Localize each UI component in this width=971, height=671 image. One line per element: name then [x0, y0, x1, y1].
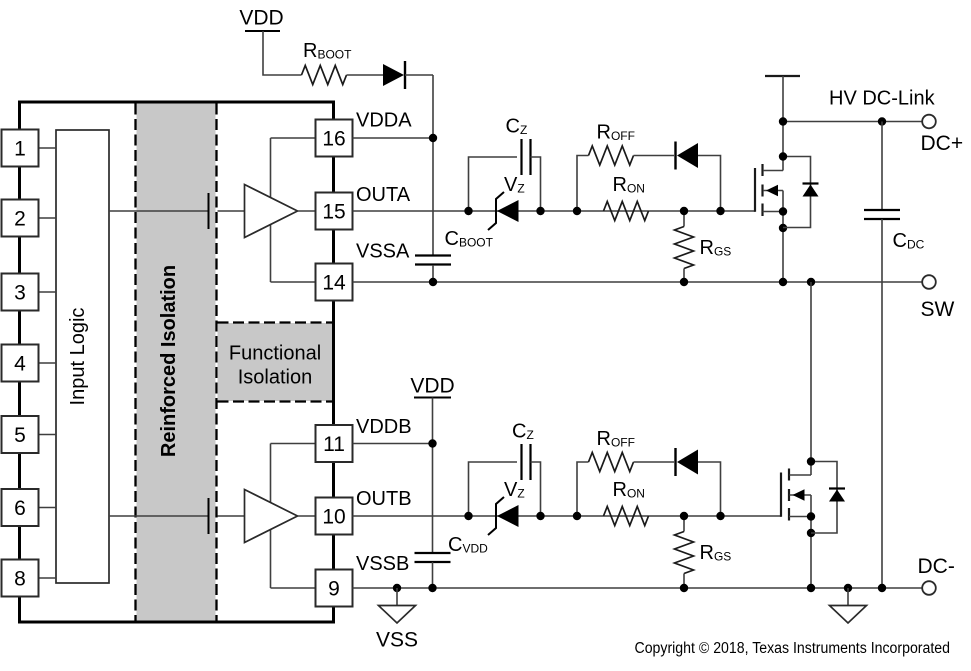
C_DC lower lead — [881, 219, 883, 588]
wire driver B to pin9 — [271, 587, 316, 589]
wire R_OFF to diode — [634, 155, 675, 157]
node HV C_DC — [878, 117, 886, 125]
node Q2 source DC- — [807, 584, 815, 592]
transistor Q1 channel segments — [761, 164, 763, 176]
svg-text:14: 14 — [322, 272, 346, 295]
pin box 14 — [316, 264, 353, 301]
wire R_GS to rail — [683, 269, 685, 283]
svg-text:Copyright © 2018, Texas Instru: Copyright © 2018, Texas Instruments Inco… — [635, 640, 951, 657]
svg-text:Reinforced Isolation: Reinforced Isolation — [158, 265, 180, 457]
svg-text:2: 2 — [14, 208, 26, 231]
wire T-bar to HV node — [782, 76, 784, 122]
transistor Q2 channel segments — [788, 469, 790, 481]
node R_GS top — [680, 512, 688, 520]
node R_OFF branch — [573, 512, 581, 520]
wire VDD to R_BOOT — [263, 31, 302, 75]
Q2 body to source — [810, 495, 812, 517]
node R_GS bottom A — [680, 278, 688, 286]
wire OUTA — [353, 210, 756, 212]
svg-text:9: 9 — [328, 578, 340, 601]
transistor Q2 gate bar — [780, 473, 782, 517]
wire to R_GS — [683, 211, 685, 227]
svg-text:5: 5 — [14, 424, 26, 447]
pin box 5 — [2, 416, 39, 453]
ground DC- symbol — [847, 588, 849, 605]
Q2 source lead — [810, 517, 812, 589]
wire C_Z to OUTA line — [531, 157, 541, 211]
svg-text:15: 15 — [322, 201, 345, 224]
svg-text:VSS: VSS — [376, 629, 418, 652]
wire C_VDD to VSSB — [432, 562, 434, 588]
body diode Q1 — [803, 182, 819, 184]
wire to R_GS — [683, 516, 685, 532]
node VDDA — [429, 134, 437, 142]
capacitor C_VDD — [415, 552, 451, 554]
VDD B rail vertical — [432, 398, 434, 554]
isolation capacitor plate A — [208, 193, 210, 229]
wire diode down to OUT line — [698, 462, 721, 516]
ground VSS symbol — [396, 588, 398, 605]
wire isolation cap B to driver B — [218, 515, 245, 517]
resistor R_OFF — [589, 453, 634, 472]
svg-text:OUTB: OUTB — [356, 488, 412, 510]
functional isolation top dashed border — [218, 321, 333, 323]
VDD power bar — [245, 30, 280, 32]
node Q1 drain — [779, 152, 787, 160]
Q2 body contact — [790, 494, 812, 496]
svg-text:4: 4 — [14, 353, 26, 376]
node Q2 diode return — [807, 529, 815, 537]
functional isolation bottom dashed border — [218, 400, 333, 402]
driver A supply rail vertical — [270, 138, 272, 282]
wire to snubber cap C_Z — [469, 462, 518, 516]
wire input logic to isolation cap A — [109, 210, 208, 212]
Q2 body arrow — [793, 489, 805, 500]
wire C_BOOT to VSSA — [432, 265, 434, 282]
svg-text:DC-: DC- — [918, 555, 955, 578]
svg-text:11: 11 — [323, 433, 345, 456]
wire to snubber cap C_Z — [469, 157, 518, 211]
Q2 source contact — [789, 516, 811, 518]
resistor R_GS — [675, 227, 694, 269]
terminal DC- — [922, 581, 936, 595]
node C_Z right — [536, 207, 544, 215]
svg-text:HV DC-Link: HV DC-Link — [829, 88, 936, 110]
pin box 8 — [2, 560, 39, 597]
Q2 drain lead to SW — [810, 282, 812, 475]
capacitor C_BOOT — [415, 254, 451, 256]
reinforced isolation right dashed border — [215, 104, 217, 621]
pin box 2 — [2, 200, 39, 237]
terminal DC+ — [922, 115, 936, 129]
node Q1 source SW — [779, 278, 787, 286]
driver B supply rail vertical — [270, 444, 272, 589]
zener diode V_Z — [488, 192, 504, 230]
svg-text:VDD: VDD — [410, 375, 454, 398]
svg-text:8: 8 — [14, 568, 26, 591]
pin box 10 — [316, 498, 353, 535]
reinforced isolation left dashed border — [134, 104, 136, 621]
transistor Q1 gate bar — [754, 168, 756, 212]
driver buffer A — [245, 185, 298, 238]
node Q2 drain — [807, 457, 815, 465]
wire R_GS to rail — [683, 574, 685, 588]
svg-text:6: 6 — [14, 497, 26, 520]
wire pin16 VDDA — [353, 137, 434, 139]
body diode Q1 loop — [783, 157, 811, 228]
wire DC- line — [353, 587, 923, 589]
svg-text:Input Logic: Input Logic — [67, 308, 89, 406]
wire driver A output to pin15 — [298, 210, 316, 212]
node Q1 diode return — [779, 224, 787, 232]
wire pin4 to input logic — [38, 362, 56, 364]
terminal SW — [922, 275, 936, 289]
node C_Z left — [464, 207, 472, 215]
wire driver A to pin14 — [271, 281, 316, 283]
pin box 1 — [2, 130, 39, 167]
node HV left — [779, 117, 787, 125]
wire SW line — [353, 281, 923, 283]
resistor R_ON — [604, 507, 649, 526]
svg-text:Isolation: Isolation — [238, 367, 313, 389]
svg-text:1: 1 — [14, 138, 26, 161]
node C_VDD bottom — [428, 584, 436, 592]
node C_Z left — [464, 512, 472, 520]
wire pin1 to input logic — [38, 147, 56, 149]
resistor R_GS — [675, 532, 694, 574]
pin box 16 — [316, 120, 353, 157]
gate driver IC U1 outline — [20, 102, 334, 622]
wire diode down to OUT line — [698, 156, 721, 212]
wire driver B output to pin10 — [298, 515, 316, 517]
node DC- ground — [844, 584, 852, 592]
node R_OFF branch — [573, 207, 581, 215]
node SW to Q2 drain — [807, 278, 815, 286]
wire driver B to pin11 — [271, 443, 316, 445]
Q1 body arrow — [766, 185, 778, 196]
svg-text:Functional: Functional — [229, 343, 321, 365]
node C_Z right — [536, 512, 544, 520]
svg-text:OUTA: OUTA — [356, 184, 411, 206]
wire input logic to isolation cap B — [109, 515, 208, 517]
svg-text:VSSA: VSSA — [356, 241, 410, 263]
wire R_OFF to diode — [634, 461, 675, 463]
node R_GS top — [680, 207, 688, 215]
pin box 6 — [2, 489, 39, 526]
pin box 11 — [316, 425, 353, 462]
node VDDB — [428, 439, 436, 447]
Q1 body contact — [763, 190, 783, 192]
isolation capacitor plate B — [208, 498, 210, 534]
wire OUTB — [353, 515, 782, 517]
node diode branch — [716, 512, 724, 520]
Q1 body to source — [782, 191, 784, 212]
svg-text:VSSB: VSSB — [356, 553, 409, 575]
diode D_OFF — [674, 142, 676, 170]
node C_DC bottom — [878, 584, 886, 592]
Q1 source contact — [763, 211, 784, 213]
svg-text:10: 10 — [322, 506, 345, 529]
node Q1 source — [779, 207, 787, 215]
wire pin11 VDDB — [353, 443, 433, 445]
functional isolation box — [218, 323, 333, 401]
body diode Q2 loop — [811, 462, 837, 534]
wire pin3 to input logic — [38, 291, 56, 293]
wire driver A to pin16 — [271, 137, 316, 139]
node diode branch — [716, 207, 724, 215]
resistor R_ON — [604, 202, 649, 221]
svg-text:VDDA: VDDA — [356, 110, 412, 132]
pin box 15 — [316, 193, 353, 230]
wire pin8 to input logic — [38, 577, 56, 579]
wire pin2 to input logic — [38, 217, 56, 219]
capacitor C_Z — [520, 444, 522, 480]
reinforced isolation band — [137, 104, 216, 621]
wire R_OFF branch up — [577, 156, 589, 212]
svg-text:VDD: VDD — [239, 7, 283, 30]
diode D_BOOT — [383, 64, 404, 86]
VDD power bar B — [414, 397, 451, 399]
svg-text:DC+: DC+ — [921, 132, 964, 155]
resistor R_OFF — [589, 146, 634, 165]
svg-text:16: 16 — [322, 128, 345, 151]
diode D_OFF — [674, 448, 676, 476]
body diode Q2 — [829, 487, 845, 489]
drain supply T-bar — [765, 75, 800, 77]
capacitor C_Z — [520, 139, 522, 175]
wire R_BOOT to diode — [347, 74, 384, 76]
pin box 3 — [2, 274, 39, 311]
wire diode to VDDA rail — [405, 74, 433, 76]
pin box 4 — [2, 345, 39, 382]
input logic block — [56, 130, 109, 583]
zener diode V_Z — [488, 497, 504, 535]
node VSS ground — [393, 584, 401, 592]
capacitor C_DC branch — [881, 122, 883, 211]
HV DC-Link line — [783, 121, 922, 123]
svg-text:VDDB: VDDB — [356, 416, 412, 438]
capacitor C_DC — [864, 209, 900, 211]
Q1 source lead — [782, 212, 784, 283]
wire pin6 to input logic — [38, 507, 56, 509]
resistor R_BOOT — [302, 66, 347, 85]
node Q2 source — [807, 512, 815, 520]
wire R_OFF branch up — [577, 462, 589, 516]
svg-text:SW: SW — [921, 298, 955, 321]
driver buffer B — [245, 490, 298, 543]
node R_GS bottom B — [680, 584, 688, 592]
Q1 drain lead — [782, 122, 784, 171]
Q2 drain contact — [790, 474, 812, 476]
node C_BOOT bottom — [429, 278, 437, 286]
VDDA rail vertical — [432, 75, 434, 255]
svg-text:3: 3 — [14, 282, 26, 305]
wire isolation cap A to driver A — [218, 210, 245, 212]
Q1 drain contact — [763, 170, 783, 172]
pin box 9 — [316, 570, 353, 607]
wire pin5 to input logic — [38, 434, 56, 436]
wire C_Z to OUTA line — [531, 462, 541, 516]
